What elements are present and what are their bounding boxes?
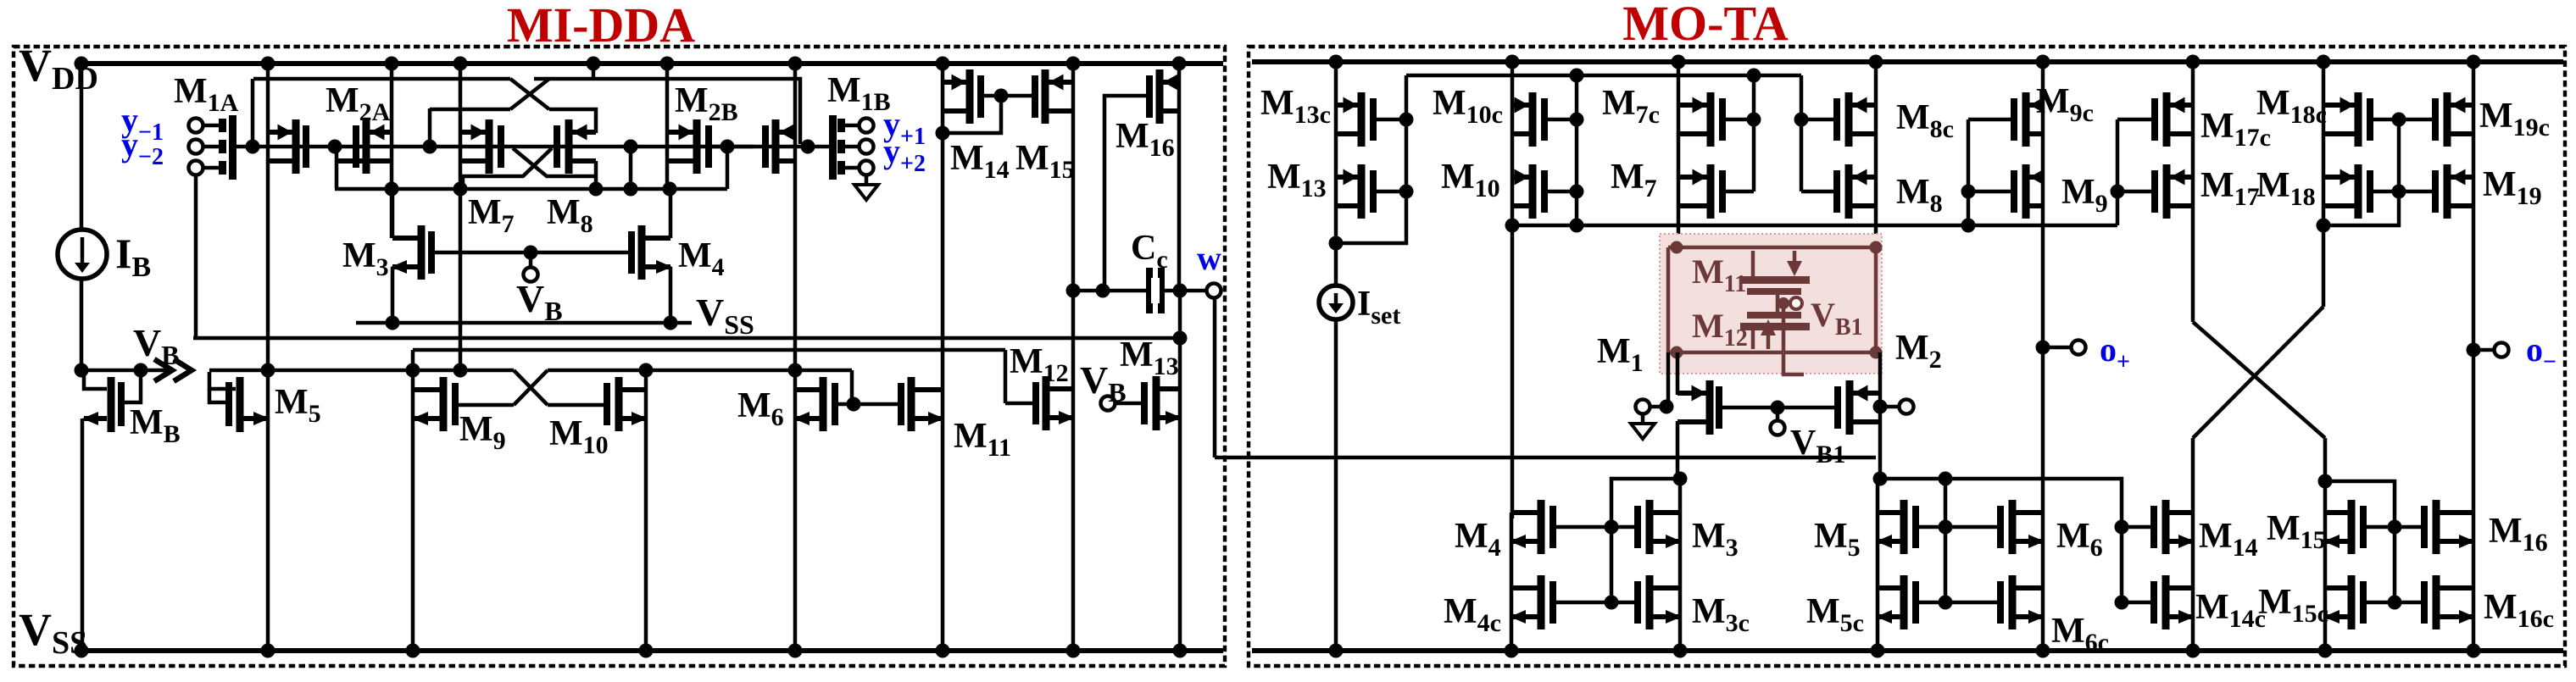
- wire M8 column: [592, 64, 596, 80]
- wire M2B gate to dot: [712, 145, 754, 149]
- wire M15 M16 gate rail: [2367, 525, 2421, 530]
- transistor M2B: [693, 119, 701, 174]
- wire M17 gates: [2117, 118, 2155, 122]
- wire M8 column mota: [1874, 62, 1878, 247]
- block border MI-DDA: [14, 47, 1225, 666]
- wire M14 gate leads: [2122, 525, 2154, 530]
- wire M10 gates mota: [1544, 118, 1577, 122]
- transistor M19c: [2444, 92, 2451, 147]
- ground symbol M1B input: [865, 175, 869, 185]
- transistor M7: [486, 119, 493, 174]
- transistor M1A: [292, 119, 300, 174]
- wire M1A gate up: [251, 79, 255, 147]
- wire Iset to VSS: [1334, 319, 1338, 651]
- wire M3 M4 gate line: [435, 251, 631, 255]
- wire M17 column: [2191, 62, 2195, 322]
- wire M4 M3 gate rail: [1556, 525, 1634, 530]
- wire pink bottom rail: [1668, 351, 1876, 355]
- transistor M6 mota: [2009, 500, 2017, 554]
- terminal VB tail: [529, 252, 533, 269]
- wire M11 column: [941, 62, 945, 651]
- wire M19 column: [2472, 62, 2476, 651]
- wire M18 column: [2322, 62, 2326, 307]
- terminal VB M13: [1101, 396, 1116, 411]
- wire pink top rail: [1668, 246, 1876, 250]
- wire M14 column: [2191, 438, 2195, 651]
- transistor M14: [966, 69, 974, 124]
- transistor M5c: [1900, 575, 1908, 629]
- wire M8 gates mota: [1801, 118, 1837, 122]
- wire M9 column: [411, 350, 415, 651]
- wire M4 source down: [669, 267, 673, 323]
- wire IB to VB node: [80, 278, 84, 370]
- wire tail line A: [335, 187, 727, 191]
- transistor M1A multi-input plate: [229, 115, 236, 180]
- pink region: [1660, 234, 1882, 374]
- current source IB: [58, 230, 107, 279]
- wire gate bus column x507: [428, 108, 432, 147]
- transistor M12 floating: [1740, 323, 1810, 330]
- transistor M13c: [1358, 92, 1366, 147]
- wire M2 drain column: [1878, 352, 1883, 479]
- wire M16 gate down: [1104, 96, 1146, 291]
- wire cross diagonal A: [2193, 322, 2325, 438]
- wire w line: [1073, 289, 1207, 293]
- transistor M5: [236, 377, 244, 432]
- transistor M8 mota: [1845, 164, 1853, 219]
- transistor M3c: [1646, 575, 1654, 629]
- wire M9 gates mota: [1968, 118, 2014, 122]
- terminal MO-TA input: [1887, 405, 1900, 409]
- terminal o-: [2467, 343, 2481, 358]
- wire long line2 bias: [413, 348, 1005, 352]
- wire long line1 w-feedback: [193, 336, 1180, 341]
- transistor M17c: [2163, 92, 2171, 147]
- wire M6 M11 gate rail: [838, 402, 898, 407]
- wire mirror line y266: [1512, 224, 2117, 228]
- transistor M18c: [2355, 92, 2362, 147]
- wire M15c M16c gate rail: [2367, 601, 2421, 605]
- wire M4 drain up: [669, 189, 673, 238]
- wire mirror line to M14 gate: [1945, 479, 2122, 527]
- wire M1B gate down: [726, 147, 730, 189]
- wire M5 M6 gate rail: [1919, 525, 1997, 530]
- wire M1A source column: [266, 64, 270, 651]
- wire pink left rail: [1666, 247, 1671, 352]
- transistor M6: [820, 377, 827, 431]
- transistor M4c: [1538, 575, 1545, 629]
- transistor M3 mota: [1646, 500, 1654, 554]
- wire M9 M10 cross couple: [514, 370, 548, 405]
- transistor M10c: [1529, 92, 1537, 147]
- wire M14 M15 gate tie: [981, 94, 1035, 98]
- VSS rail MO-TA: [1252, 648, 2563, 653]
- terminal w: [1207, 284, 1221, 298]
- input terminal y+1: [860, 119, 874, 133]
- wire M1 gate rail VB1: [1722, 406, 1834, 410]
- wire M3 drain up: [391, 190, 395, 238]
- VDD rail MO-TA: [1252, 59, 2563, 64]
- wire M6 column: [793, 370, 798, 651]
- wire M1 source down: [1676, 421, 1680, 479]
- input terminal y-1: [189, 119, 203, 133]
- wire M1B column: [793, 64, 798, 370]
- wire M9 column mota: [2041, 62, 2045, 651]
- transistor M7 mota: [1707, 164, 1715, 219]
- wire M7 gates mota: [1722, 118, 1754, 122]
- wire M4c M3c gate rail: [1556, 601, 1634, 605]
- transistor M1 mota: [1706, 380, 1714, 435]
- wire bias line y89: [1406, 74, 1801, 78]
- transistor M9: [440, 377, 448, 431]
- transistor M3 tail: [418, 225, 426, 280]
- wire M15 mirror jumper: [2325, 481, 2395, 602]
- wire M2A gate node down: [335, 148, 339, 189]
- wire M2A M3 column: [390, 64, 394, 238]
- wire M2B column: [665, 62, 670, 189]
- wire M13 column: [1178, 291, 1182, 651]
- transistor M14c: [2162, 575, 2170, 629]
- wire M18 M19 gates: [2370, 118, 2435, 122]
- wire M14 gate column: [2120, 527, 2124, 602]
- VB arrow marker: [154, 359, 172, 381]
- ground symbol M1: [1641, 413, 1645, 424]
- transistor M9 mota: [2022, 164, 2030, 219]
- transistor M12: [1043, 376, 1050, 430]
- transistor M4 tail: [638, 225, 646, 280]
- wire pairB diode drop: [629, 147, 633, 189]
- input terminal ref: [860, 161, 874, 175]
- svg-text:MI-DDA: MI-DDA: [507, 0, 695, 53]
- VDD rail: [81, 61, 1223, 66]
- transistor M16c: [2433, 575, 2440, 629]
- wire M7 column mota: [1677, 62, 1681, 247]
- transistor M14 mota: [2162, 500, 2170, 554]
- transistor M1B: [772, 119, 780, 174]
- transistor M17: [2163, 164, 2171, 219]
- transistor M6c: [2009, 575, 2017, 629]
- wire M4 column: [1510, 513, 1514, 651]
- wire tailA down to bias line: [459, 189, 463, 370]
- wire M13c column: [1334, 62, 1338, 286]
- wire cross couple M8 gate to tail: [463, 148, 552, 187]
- wire M1 top stub link: [1676, 352, 1680, 395]
- svg-text:MO-TA: MO-TA: [1622, 0, 1789, 51]
- block border MO-TA: [1249, 47, 2565, 666]
- transistor M13 mota: [1358, 164, 1366, 219]
- wire M5c M6c gate rail: [1919, 601, 1997, 605]
- wire M8 drain drop: [594, 161, 598, 189]
- wire M12 gate: [1005, 402, 1036, 406]
- wire M10 column mota: [1511, 62, 1515, 518]
- wire M1A gate rail: [236, 145, 830, 149]
- VSS rail: [81, 648, 1223, 653]
- transistor M16: [1156, 69, 1164, 124]
- transistor M5 mota: [1900, 500, 1908, 554]
- wire gate bus crossover: [430, 108, 510, 112]
- wire link to M1B plate: [534, 79, 800, 144]
- transistor M11 floating: [1740, 276, 1810, 284]
- wire M3 source down: [391, 267, 395, 323]
- wire cross diagonal B: [2193, 307, 2323, 438]
- wire MB source to VSS: [81, 419, 85, 651]
- transistor M4 mota: [1538, 500, 1545, 554]
- transistor M1B multi-input plate: [829, 115, 837, 180]
- wire M15 column: [1071, 64, 1076, 651]
- wire M5 column: [1876, 479, 1880, 651]
- wire M16 column: [1177, 62, 1182, 291]
- transistor M7c: [1707, 92, 1715, 147]
- transistor MB: [108, 377, 115, 432]
- terminal VB1: [1776, 408, 1780, 421]
- wire M13 gates: [1377, 118, 1406, 122]
- transistor M18: [2355, 164, 2362, 219]
- transistor M15 mota: [2348, 500, 2356, 554]
- wire pink right rail: [1874, 247, 1878, 352]
- transistor M19: [2444, 164, 2451, 219]
- transistor M2A: [363, 119, 370, 174]
- wire VB1 node down: [1783, 308, 1804, 374]
- transistor M8c: [1845, 92, 1853, 147]
- wire w to MO-TA input: [1213, 297, 1217, 457]
- svg-text:w: w: [1197, 239, 1221, 277]
- node VB1 floating: [1776, 295, 1780, 312]
- wire M3 mirror jumper: [1611, 479, 1680, 527]
- wire M3 column: [1678, 479, 1683, 651]
- terminal M1 input: [1636, 400, 1650, 414]
- wire M5 mirror node: [1880, 477, 1945, 481]
- wire feedback input to line1: [194, 175, 198, 338]
- wire M15 drain node: [2323, 438, 2328, 651]
- wire internal VSS line: [356, 321, 692, 325]
- wire VB bias line: [81, 369, 170, 373]
- transistor M15: [1042, 69, 1049, 124]
- wire M1 drain branch: [1666, 352, 1671, 407]
- transistor M13: [1153, 376, 1160, 430]
- input terminal y+2: [860, 140, 874, 154]
- transistor M16 mota: [2433, 500, 2440, 554]
- capacitor Cc: [1146, 268, 1153, 313]
- wire IB column: [80, 64, 84, 230]
- transistor M8: [565, 119, 573, 174]
- transistor M10: [615, 377, 623, 431]
- wire cross couple M7 gate to M8 drain: [513, 148, 596, 176]
- current source Iset: [1319, 286, 1353, 319]
- transistor M11: [908, 377, 915, 431]
- wire top link line y93: [253, 77, 510, 81]
- input terminal feedback: [189, 161, 203, 175]
- input terminal y-2: [189, 140, 203, 154]
- transistor M9c: [2022, 92, 2030, 147]
- wire M7 column: [459, 62, 463, 189]
- transistor M2 mota: [1846, 380, 1854, 435]
- wire M10 column: [644, 370, 648, 651]
- terminal o+: [2036, 341, 2050, 355]
- transistor M15c: [2348, 575, 2356, 629]
- transistor M10 mota: [1529, 164, 1537, 219]
